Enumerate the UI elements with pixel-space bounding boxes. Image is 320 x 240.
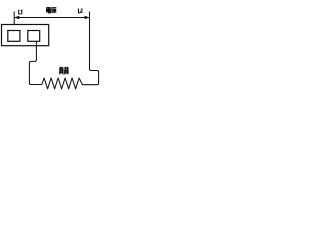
dimension line bbox=[14, 17, 89, 19]
label 負荷 (load) hand-drawn mini kanji bbox=[59, 67, 68, 75]
right arrowhead bbox=[85, 16, 90, 19]
left extension line L1 tick bbox=[13, 12, 15, 25]
power source outer box bbox=[2, 25, 49, 46]
wire from socket 2 through resistor (load) up to L2 line bbox=[29, 12, 98, 89]
label L2 bbox=[78, 9, 83, 14]
label L1 bbox=[18, 10, 22, 15]
left arrowhead bbox=[14, 16, 19, 19]
label 電源 (power source) hand-drawn mini kanji bbox=[46, 7, 56, 13]
socket 1 bbox=[8, 31, 20, 42]
socket 2 bbox=[28, 31, 40, 42]
